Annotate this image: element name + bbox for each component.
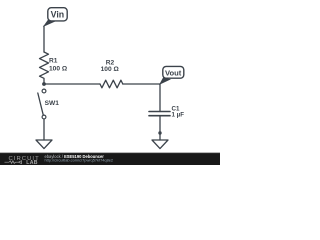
svg-text:SW1: SW1 [45, 100, 60, 107]
svg-text:LAB: LAB [26, 160, 38, 165]
svg-text:100 Ω: 100 Ω [101, 66, 120, 73]
svg-text:R1: R1 [49, 58, 58, 65]
svg-text:100 Ω: 100 Ω [49, 66, 68, 73]
svg-text:http://circuitlab.com/c/7pwrq5: http://circuitlab.com/c/7pwrq57kf74q8e2 [45, 158, 114, 163]
svg-text:Vout: Vout [165, 68, 182, 77]
svg-text:Vin: Vin [51, 10, 65, 20]
svg-text:1 µF: 1 µF [172, 112, 185, 119]
